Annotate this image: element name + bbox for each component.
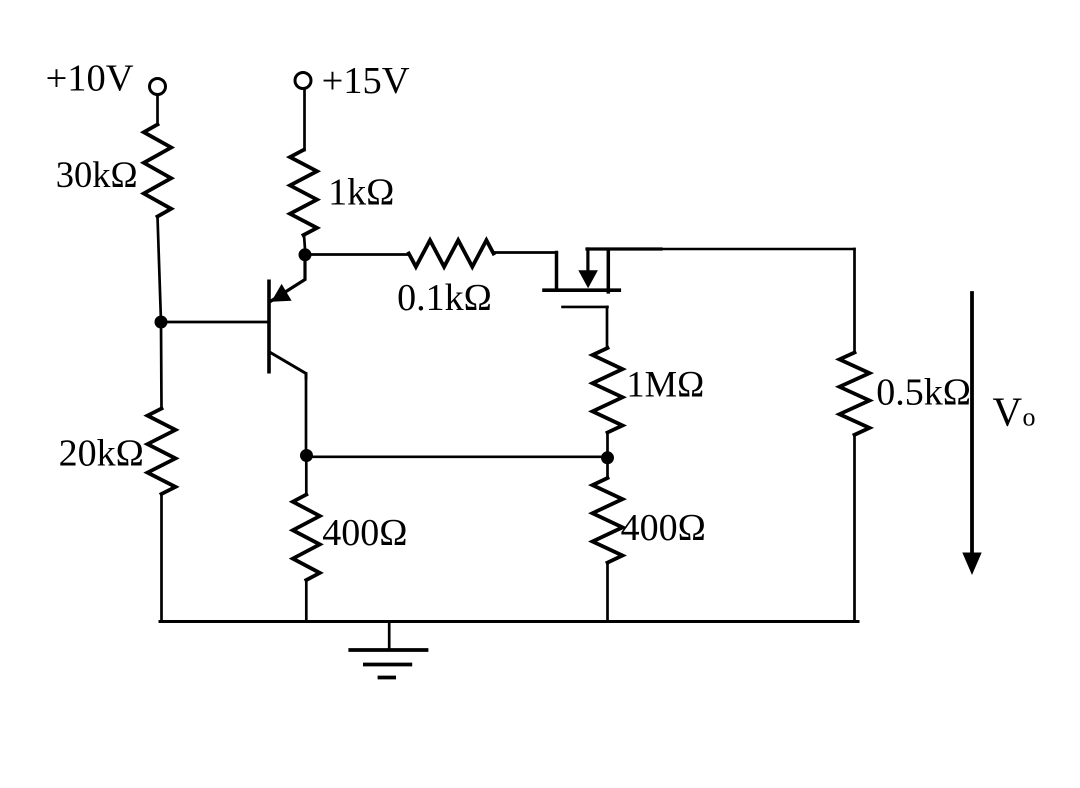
wire R 400 right to ground rail	[606, 563, 609, 622]
resistor 400Ω left	[293, 495, 320, 580]
wire +10V terminal to R 30k	[156, 96, 159, 125]
resistor 1MΩ	[593, 348, 623, 433]
resistor 0.5kΩ	[840, 353, 870, 435]
wire R 1k to node B	[304, 235, 305, 249]
svg-text:1MΩ: 1MΩ	[626, 364, 704, 405]
svg-text:400Ω: 400Ω	[621, 507, 706, 549]
wire R 30k to node A	[158, 217, 162, 323]
ground	[350, 622, 426, 678]
svg-text:1kΩ: 1kΩ	[328, 172, 394, 214]
resistor 30kΩ	[144, 125, 171, 217]
wire ground rail	[160, 620, 858, 623]
wire R 0.5k to ground rail	[853, 435, 856, 622]
resistor 20kΩ	[148, 409, 176, 495]
wire node A to R 20k	[160, 322, 163, 409]
wire node D to R 400 right	[606, 458, 609, 478]
node D junction dot	[601, 451, 614, 464]
terminal +15V	[295, 73, 311, 89]
wire R 1M to node D	[606, 433, 609, 458]
node A junction dot	[155, 316, 168, 329]
wire node C to node D	[307, 455, 608, 458]
wire M1 source to R 1M	[606, 307, 609, 348]
svg-text:+15V: +15V	[322, 60, 410, 102]
wire node C to R 400 left	[305, 456, 308, 495]
svg-text:0.1kΩ: 0.1kΩ	[397, 277, 492, 319]
svg-text:20kΩ: 20kΩ	[59, 433, 144, 475]
svg-text:+10V: +10V	[46, 57, 134, 99]
wire M1 drain to output rail	[661, 248, 855, 250]
svg-text:V: V	[993, 388, 1023, 434]
resistor 1kΩ	[290, 150, 317, 235]
svg-text:400Ω: 400Ω	[322, 512, 407, 554]
wire +15V terminal to R 1k	[303, 90, 306, 150]
wire node A to Q1 base	[161, 321, 269, 324]
wire R 20k to ground rail	[160, 494, 163, 622]
wire Q1 collector to node C	[305, 374, 308, 456]
resistor 400Ω right	[593, 478, 623, 563]
arrow Vo	[962, 293, 981, 575]
svg-text:30kΩ: 30kΩ	[56, 154, 138, 195]
svg-text:0.5kΩ: 0.5kΩ	[876, 372, 971, 414]
resistor 0.1kΩ	[409, 240, 494, 267]
transistor Q1 PNP	[267, 261, 306, 378]
terminal +10V	[150, 79, 166, 95]
wire output rail top	[853, 249, 856, 353]
MOSFET M1	[544, 249, 661, 307]
wire R 0.1k to M1 gate	[494, 251, 557, 254]
wire R 400 left to ground rail	[305, 580, 308, 622]
node B junction dot	[299, 248, 312, 261]
node C junction dot	[300, 449, 313, 462]
wire node B to R 0.1k	[305, 253, 409, 256]
svg-text:o: o	[1023, 402, 1036, 431]
